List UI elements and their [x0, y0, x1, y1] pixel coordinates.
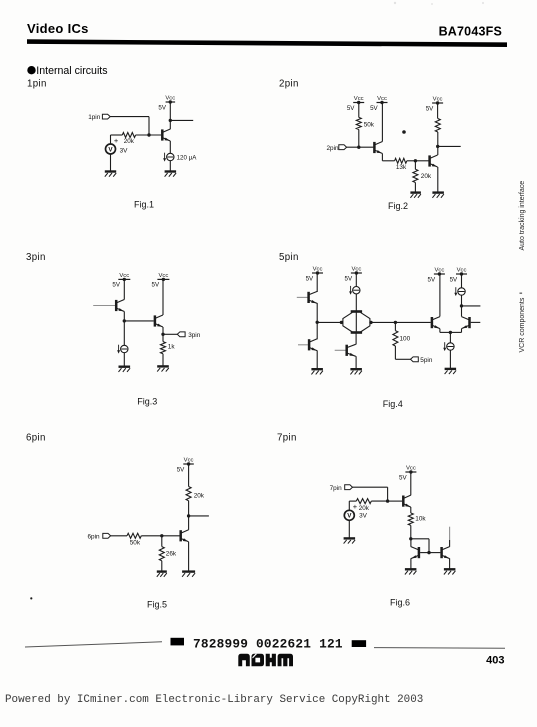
svg-text:Fig.2: Fig.2 — [388, 201, 408, 211]
svg-text:Fig.4: Fig.4 — [383, 399, 403, 409]
svg-text:Vcc: Vcc — [433, 96, 443, 102]
svg-text:Vcc: Vcc — [377, 96, 387, 102]
svg-text:6pin: 6pin — [88, 533, 101, 540]
svg-text:20k: 20k — [421, 173, 432, 180]
svg-text:7pin: 7pin — [330, 485, 343, 492]
svg-text:5V: 5V — [428, 276, 436, 283]
svg-text:2pin: 2pin — [327, 145, 340, 152]
svg-text:Fig.5: Fig.5 — [147, 600, 167, 610]
svg-text:Internal circuits: Internal circuits — [36, 65, 107, 77]
svg-text:V: V — [347, 513, 352, 520]
svg-text:3V: 3V — [120, 148, 129, 155]
svg-text:2pin: 2pin — [279, 78, 299, 89]
svg-text:Vcc: Vcc — [354, 96, 364, 102]
svg-text:5V: 5V — [370, 105, 378, 112]
svg-text:+: + — [353, 502, 358, 511]
svg-text:7828999 0022621 121: 7828999 0022621 121 — [193, 637, 343, 652]
svg-text:3V: 3V — [359, 512, 368, 519]
svg-text:13k: 13k — [396, 164, 407, 171]
svg-text:Vcc: Vcc — [165, 95, 175, 101]
svg-text:+: + — [114, 136, 119, 145]
svg-text:Vcc: Vcc — [457, 267, 467, 273]
svg-text:5V: 5V — [152, 282, 160, 289]
svg-text:5V: 5V — [112, 282, 120, 289]
svg-text:5V: 5V — [306, 275, 314, 282]
svg-text:Auto tracking interface: Auto tracking interface — [519, 181, 526, 251]
svg-text:Vcc: Vcc — [434, 267, 444, 273]
svg-text:3pin: 3pin — [26, 252, 46, 263]
svg-text:Fig.1: Fig.1 — [134, 199, 154, 209]
svg-text:120 μA: 120 μA — [177, 154, 198, 161]
svg-text:5V: 5V — [158, 104, 166, 111]
svg-text:7pin: 7pin — [277, 433, 297, 444]
svg-text:BA7043FS: BA7043FS — [439, 25, 502, 39]
svg-text:Vcc: Vcc — [406, 465, 416, 471]
svg-text:V: V — [108, 146, 113, 153]
svg-text:Fig.6: Fig.6 — [390, 598, 410, 608]
svg-text:3pin: 3pin — [188, 332, 201, 339]
svg-text:10k: 10k — [415, 516, 426, 523]
svg-text:Vcc: Vcc — [119, 273, 129, 279]
svg-text:1pin: 1pin — [88, 114, 101, 121]
svg-text:Vcc: Vcc — [158, 273, 168, 279]
svg-text:Vcc: Vcc — [313, 266, 323, 272]
svg-text:Vcc: Vcc — [351, 266, 361, 272]
svg-text:5V: 5V — [345, 275, 353, 282]
svg-text:Vcc: Vcc — [184, 457, 194, 463]
svg-text:5pin: 5pin — [279, 252, 299, 263]
svg-text:1pin: 1pin — [27, 78, 47, 89]
svg-text:5V: 5V — [426, 105, 434, 112]
svg-text:50k: 50k — [364, 121, 375, 128]
svg-text:20k: 20k — [359, 505, 370, 512]
svg-text:50k: 50k — [130, 540, 141, 547]
svg-text:Video ICs: Video ICs — [27, 21, 89, 36]
svg-text:1k: 1k — [168, 344, 176, 351]
svg-text:5V: 5V — [347, 105, 355, 112]
svg-text:6pin: 6pin — [26, 433, 46, 444]
svg-text:VCR components: VCR components — [519, 297, 526, 352]
svg-text:20k: 20k — [194, 492, 205, 499]
svg-text:5V: 5V — [177, 466, 185, 473]
svg-text:5V: 5V — [450, 276, 458, 283]
svg-text:100: 100 — [400, 335, 411, 342]
svg-text:Fig.3: Fig.3 — [137, 396, 157, 406]
svg-text:5pin: 5pin — [420, 357, 433, 364]
svg-text:26k: 26k — [166, 551, 177, 558]
svg-text:20k: 20k — [124, 138, 135, 145]
svg-text:403: 403 — [486, 655, 504, 667]
svg-text:5V: 5V — [399, 474, 407, 481]
svg-text:Powered by ICminer.com Electro: Powered by ICminer.com Electronic-Librar… — [5, 694, 423, 706]
